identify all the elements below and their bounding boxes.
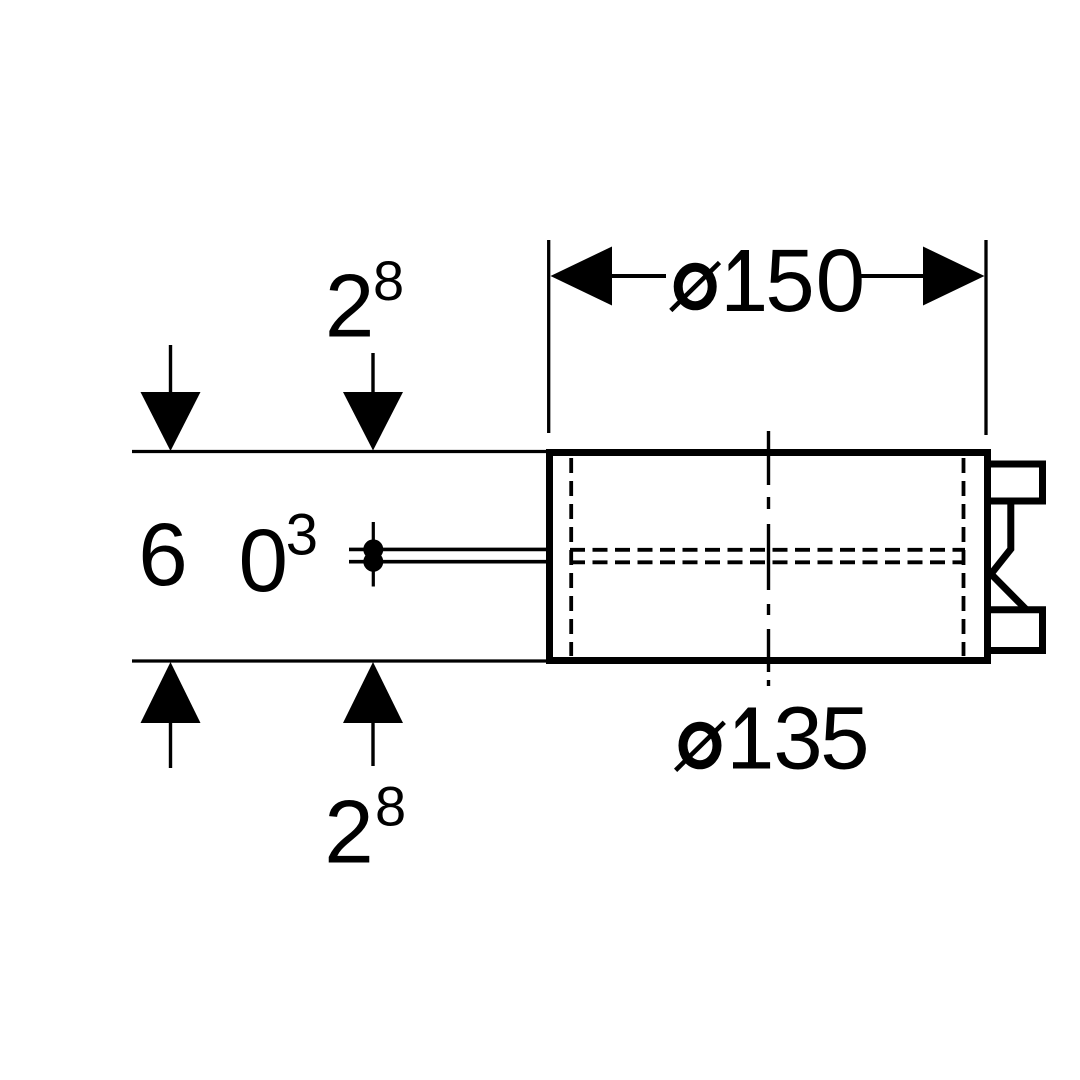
up arrow left head [141, 662, 201, 723]
pipe line upper [349, 548, 547, 552]
extension line right (ø150) [984, 240, 987, 435]
ø symbol of ø150 [671, 263, 720, 311]
down arrow left stem [169, 345, 172, 394]
svg-text:8: 8 [375, 775, 406, 838]
dim line left stub [610, 274, 666, 278]
hidden pipe lower (dashed) [570, 560, 965, 564]
clip bottom lug [987, 610, 1043, 651]
dim arrow right (ø150) [923, 247, 985, 306]
centerline (dash-dot) [767, 431, 770, 686]
down arrow left head [141, 392, 201, 451]
ø symbol of ø135 [676, 722, 725, 770]
svg-text:6: 6 [138, 504, 188, 604]
hidden edge right (dashed) [962, 458, 966, 656]
svg-text:3: 3 [773, 688, 823, 788]
point marker tick [372, 522, 375, 587]
down arrow right head [343, 392, 403, 451]
svg-text:0: 0 [239, 510, 289, 610]
up arrow left stem [169, 723, 172, 768]
svg-text:2: 2 [324, 781, 374, 881]
svg-text:5: 5 [820, 688, 870, 788]
svg-text:8: 8 [373, 249, 404, 312]
pipe line lower [349, 560, 547, 564]
svg-text:0: 0 [816, 230, 866, 330]
sleeve body [550, 453, 988, 661]
hidden pipe upper (dashed) [570, 548, 965, 552]
digit 1 of 135 (custom with foot serif) [736, 708, 757, 763]
clip top lug [987, 464, 1043, 501]
svg-text:5: 5 [765, 230, 815, 330]
down arrow right stem [371, 353, 374, 394]
svg-text:3: 3 [286, 503, 318, 568]
extension line left (ø150) [547, 240, 550, 433]
dim arrow left (ø150) [551, 247, 613, 306]
hidden edge left (dashed) [569, 458, 573, 656]
up arrow right head [343, 662, 403, 723]
dim line right stub [860, 274, 925, 278]
point marker dots [363, 539, 383, 559]
wall surface line bottom [132, 659, 547, 662]
wall surface line top [132, 450, 547, 453]
svg-text:2: 2 [325, 255, 375, 355]
digit 1 of 150 (custom with foot serif) [729, 250, 750, 305]
up arrow right stem [371, 723, 374, 766]
clip spring [991, 501, 1027, 610]
